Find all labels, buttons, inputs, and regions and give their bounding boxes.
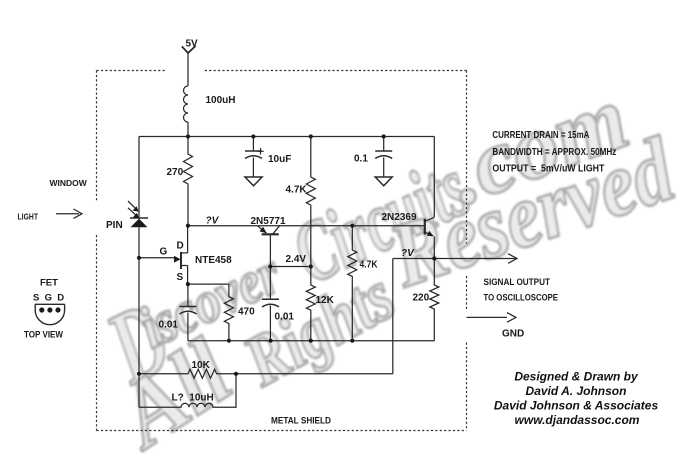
svg-text:0.1: 0.1 bbox=[354, 154, 368, 165]
svg-text:220: 220 bbox=[413, 293, 430, 304]
wire gate node down to feedback node bbox=[138, 258, 140, 374]
arrow gnd bbox=[507, 313, 516, 323]
arrow signal output bbox=[508, 254, 517, 264]
junction: Q3 emitter / R5 / signal line bbox=[432, 256, 436, 260]
svg-text:?V: ?V bbox=[401, 248, 415, 259]
junction: R1 / Q1 drain / drain line bbox=[186, 224, 190, 228]
wire gate bbox=[139, 257, 174, 259]
junction: left branch / 10K line bbox=[137, 372, 141, 376]
svg-text:LIGHT: LIGHT bbox=[18, 212, 39, 222]
shield left edge bbox=[96, 71, 98, 431]
svg-text:10uF: 10uF bbox=[268, 154, 291, 165]
shield top edge bbox=[97, 70, 467, 72]
svg-text:David Johnson & Associates: David Johnson & Associates bbox=[494, 399, 659, 413]
svg-text:David A. Johnson: David A. Johnson bbox=[526, 384, 627, 398]
resistor R5 220 bbox=[430, 259, 439, 341]
svg-text:470: 470 bbox=[238, 307, 255, 318]
svg-text:12K: 12K bbox=[316, 295, 335, 306]
junction: rail / R2 bbox=[309, 134, 313, 138]
junction: Q1 source / C3 / R6 bbox=[186, 282, 190, 286]
shield right edge bbox=[466, 71, 468, 431]
junction: rail / C1 bbox=[251, 134, 255, 138]
junction: bottom rail / R3 bbox=[309, 339, 313, 343]
transistor Q1 NTE458 JFET bbox=[174, 226, 188, 284]
wire top rail bbox=[139, 136, 434, 138]
capacitor C1 10uF bbox=[245, 137, 264, 186]
resistor R3 12K bbox=[306, 267, 315, 341]
watermark DiscoverCircuits.com / All Rights Reserved bbox=[90, 66, 684, 453]
resistor R6 470 bbox=[188, 284, 234, 341]
svg-text:?V: ?V bbox=[206, 216, 220, 227]
wire 5V stem bbox=[187, 53, 189, 86]
svg-text:www.djandassoc.com: www.djandassoc.com bbox=[515, 413, 640, 427]
svg-text:OUTPUT = 5mV/uW LIGHT: OUTPUT = 5mV/uW LIGHT bbox=[492, 164, 604, 175]
svg-text:TOP VIEW: TOP VIEW bbox=[24, 330, 63, 341]
svg-text:METAL SHIELD: METAL SHIELD bbox=[271, 416, 331, 427]
svg-text:NTE458: NTE458 bbox=[195, 255, 232, 266]
svg-text:PIN: PIN bbox=[106, 220, 123, 231]
junction dots bbox=[137, 134, 437, 376]
svg-text:10K: 10K bbox=[192, 360, 211, 371]
wire drain line bbox=[188, 225, 424, 227]
svg-text:SIGNAL OUTPUT: SIGNAL OUTPUT bbox=[484, 277, 551, 287]
5V supply symbol bbox=[182, 46, 196, 53]
svg-text:2N5771: 2N5771 bbox=[251, 216, 286, 227]
junction: rail / C2 bbox=[382, 134, 386, 138]
arrow light input bbox=[56, 209, 82, 218]
svg-text:S: S bbox=[177, 272, 184, 283]
svg-text:S G D: S G D bbox=[33, 293, 64, 304]
resistor R4 4.7K right bbox=[348, 226, 357, 341]
svg-text:BANDWIDTH = APPROX. 50MHz: BANDWIDTH = APPROX. 50MHz bbox=[492, 147, 616, 158]
junction: bottom rail / R6 bbox=[227, 339, 231, 343]
ground under C1 bbox=[245, 177, 262, 186]
resistor R7 10K bbox=[139, 369, 393, 378]
wire inductor to rail bbox=[187, 122, 189, 137]
wire signal output line bbox=[393, 258, 508, 260]
wire left branch down to PIN bbox=[138, 137, 140, 219]
svg-text:2N2369: 2N2369 bbox=[382, 212, 417, 223]
resistor R2 4.7K bbox=[306, 137, 315, 267]
svg-text:WINDOW: WINDOW bbox=[50, 178, 88, 188]
junction: bottom rail / C4 bbox=[269, 339, 273, 343]
transistor Q3 2N2369 bbox=[425, 137, 435, 259]
svg-text:TO OSCILLOSCOPE: TO OSCILLOSCOPE bbox=[484, 293, 559, 303]
inductor L1 100uH bbox=[184, 86, 189, 122]
shield bottom edge bbox=[97, 430, 467, 432]
junction: drain line / R4 bbox=[350, 224, 354, 228]
svg-text:Designed & Drawn by: Designed & Drawn by bbox=[514, 370, 639, 384]
transistor Q2 2N5771 bbox=[257, 226, 279, 267]
wire bottom rail bbox=[188, 340, 434, 342]
svg-text:4.7K: 4.7K bbox=[360, 260, 379, 271]
junction: Q2 collector / 2.4V node bbox=[268, 264, 272, 268]
shield dashed box bbox=[97, 71, 467, 431]
capacitor C4 0.01 right bbox=[262, 267, 279, 341]
capacitor C3 0.01 left, on source line bbox=[180, 284, 197, 341]
svg-text:CURRENT DRAIN = 15mA: CURRENT DRAIN = 15mA bbox=[492, 130, 589, 141]
ground under C2 bbox=[375, 177, 392, 186]
junction: bottom rail / R4 bbox=[350, 339, 354, 343]
photodiode PIN bbox=[128, 201, 148, 227]
junction: 2.4V node / R2 / R3 bbox=[309, 264, 313, 268]
junction: 10K line / L2 loop bbox=[234, 372, 238, 376]
wire feedback vertical bbox=[392, 259, 394, 374]
resistor R1 270 bbox=[184, 137, 193, 226]
credits block bbox=[494, 370, 659, 428]
svg-text:0.01: 0.01 bbox=[275, 312, 295, 323]
FET package top view bbox=[35, 304, 64, 324]
svg-text:2.4V: 2.4V bbox=[286, 254, 307, 265]
svg-text:GND: GND bbox=[502, 329, 524, 340]
junction: PIN anode / gate wire bbox=[137, 256, 141, 260]
wire PIN to gate node bbox=[138, 227, 140, 257]
svg-text:0.01: 0.01 bbox=[159, 320, 179, 331]
svg-text:G: G bbox=[160, 247, 168, 258]
svg-text:FET: FET bbox=[40, 278, 58, 289]
svg-text:L? 10uH: L? 10uH bbox=[172, 393, 214, 404]
svg-text:100uH: 100uH bbox=[206, 95, 236, 106]
wire feedback node down to 10uH loop bbox=[138, 374, 140, 408]
svg-text:D: D bbox=[177, 241, 184, 252]
capacitor C2 0.1 bbox=[375, 137, 392, 186]
svg-text:5V: 5V bbox=[186, 39, 199, 50]
junction: rail / L1 / R1 bbox=[186, 134, 190, 138]
inductor L2 10uH loop bbox=[139, 374, 236, 408]
svg-text:4.7K: 4.7K bbox=[286, 185, 308, 196]
wire gnd output bbox=[467, 316, 508, 318]
svg-text:270: 270 bbox=[167, 167, 184, 178]
wire 2.4V node bbox=[270, 266, 310, 268]
